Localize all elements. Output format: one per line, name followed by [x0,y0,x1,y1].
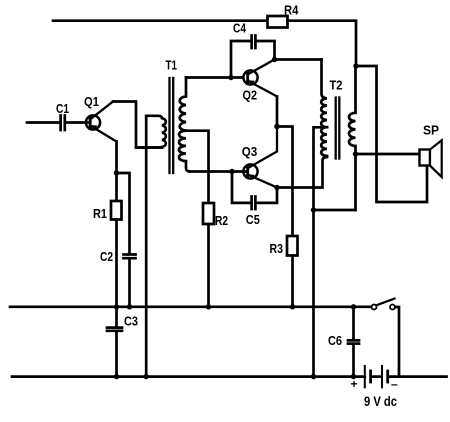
wire T1 secondary bottom lead to Q3 base [190,170,248,173]
transistor Q1 emitter arrow [92,125,97,130]
svg-text:9 V dc: 9 V dc [364,393,397,409]
wire lower rail right of battery [389,375,446,378]
transistor Q3 emitter arrow [249,174,255,179]
transformer T1 core [170,78,174,173]
wire upper rail (common) [10,305,372,308]
svg-text:C5: C5 [246,212,260,227]
svg-text:R2: R2 [215,213,228,228]
wire R1 bottom to upper rail [115,220,118,307]
transformer T2 primary winding upper [321,60,327,128]
svg-text:T2: T2 [330,78,343,93]
transistor Q1 emitter lead [90,126,117,142]
resistor R1 [111,201,122,220]
wire Q1 emitter down [115,142,118,174]
node B (Q1 emitter / R1 / C2 junction) [114,170,119,175]
wire C1 to Q1 base [67,121,91,124]
junction R2 at upper rail [206,304,211,309]
capacitor C6 [348,340,359,343]
transistor Q2 emitter lead [248,81,278,97]
svg-text:T1: T1 [166,58,178,73]
svg-text:C3: C3 [124,314,138,329]
wire Q2 emitter down to node E [276,97,279,127]
capacitor C4 [252,36,256,49]
junction T1 primary lead at lower rail [144,374,149,379]
wire Q3 emitter to T2 primary bottom [277,157,327,188]
capacitor C4 leads [231,41,275,78]
transistor Q2 base bar [246,72,249,84]
resistor R3 [287,236,298,256]
wire T1 primary top lead to lower rail [145,116,148,377]
wire Q3 collector [248,127,278,169]
wire input line [27,121,59,124]
wire node E to R3 [277,127,293,237]
junction R1 at upper rail [114,304,119,309]
svg-text:Q2: Q2 [243,88,258,103]
wire top rail (feedback line to R4) [53,19,268,22]
svg-text:R3: R3 [270,241,284,256]
svg-text:–: – [391,377,398,391]
capacitor C5 [252,197,256,210]
transistor Q2 body [243,70,257,84]
transistor Q2 collector lead [248,60,275,75]
transformer T1 secondary winding lower [179,131,190,172]
battery B1 cell1 negative plate [369,371,372,382]
wire node A to speaker return vertical [356,66,427,202]
wire node B to C2 branch [117,173,130,253]
speaker SP [420,150,431,166]
junction R3 at upper rail [290,304,295,309]
resistor R4 [268,16,288,28]
node D (Q2 collector / C4 / T2 top) [272,57,277,62]
node A (R4 / T2 secondary / speaker return junction) [353,63,358,68]
transformer T1 secondary winding upper [180,78,186,131]
svg-text:+: + [351,377,358,391]
transistor Q3 base bar [246,166,249,178]
svg-text:C1: C1 [56,101,69,116]
svg-text:SP: SP [423,123,439,138]
transistor Q1 collector lead [90,102,113,120]
node E (Q2 emitter / Q3 collector / R3) [274,124,280,130]
wire lower rail (battery +) [12,375,365,378]
capacitor C3 [107,328,122,331]
wire T1 primary bottom lead [136,146,162,149]
switch S1 lever [377,299,395,306]
switch S1 contact left [372,305,377,310]
svg-text:C2: C2 [100,249,113,264]
capacitor C6 leads [352,307,355,377]
svg-text:C4: C4 [233,21,247,36]
wire C2 bottom to upper rail [128,260,131,307]
svg-text:R1: R1 [93,206,107,221]
capacitor C2 [124,255,136,259]
wire R2 bottom to upper rail [207,224,210,307]
node F (Q3 base / C5 junction) [229,169,234,174]
node C (C4 left lead on Q2 base) [228,75,233,80]
transistor Q3 emitter lead [248,175,278,188]
resistor R2 [203,203,214,224]
wire secondary return [314,209,356,212]
wire R4 right to corner down [288,21,357,66]
battery B1 cell2 positive plate [381,366,383,387]
svg-text:Q1: Q1 [84,94,99,109]
svg-text:R4: R4 [284,3,299,18]
junction C6 at upper rail [351,304,356,309]
wire node B to R1 [115,173,118,201]
capacitor C5 leads [232,172,277,203]
transistor Q1 body [86,115,100,129]
switch S1 contact right [390,305,395,310]
wire node D to T2 primary top [275,58,322,61]
transistor Q2 emitter arrow [249,80,255,85]
wire T1 center tap to R2 [186,131,209,203]
capacitor C1 [61,116,65,131]
node H (T2 secondary bottom / speaker top) [353,151,358,156]
battery B1 cell1 positive plate [364,366,366,387]
capacitor C3 leads [115,307,118,377]
node G (Q3 emitter node) [274,185,279,190]
transformer T2 core [336,98,340,159]
wire speaker top lead [356,153,420,156]
wire R3 bottom to upper rail [291,256,294,307]
wire T1 secondary top lead to Q2 base [186,76,243,79]
battery B1 cell2 negative plate [386,371,389,382]
transistor Q1 base bar [89,117,92,129]
transformer T2 secondary winding [349,66,356,210]
svg-text:C6: C6 [328,333,342,348]
transformer T1 primary winding [146,116,166,147]
wire T2 center tap to lower rail [314,127,322,376]
junction C2 at upper rail [127,304,132,309]
transistor Q3 body [243,164,257,178]
svg-text:Q3: Q3 [242,144,258,159]
transformer T2 primary winding lower [321,127,327,156]
junction T2 center tap at lower rail [311,374,316,379]
wire Q1 collector to T1 primary bottom [113,102,162,148]
wire switch to battery negative [395,307,399,377]
node I (secondary return to center-tap line) [311,207,316,212]
junction C6 at lower rail [351,374,356,379]
wire between battery cells [373,375,380,378]
junction C3 at lower rail [114,374,119,379]
